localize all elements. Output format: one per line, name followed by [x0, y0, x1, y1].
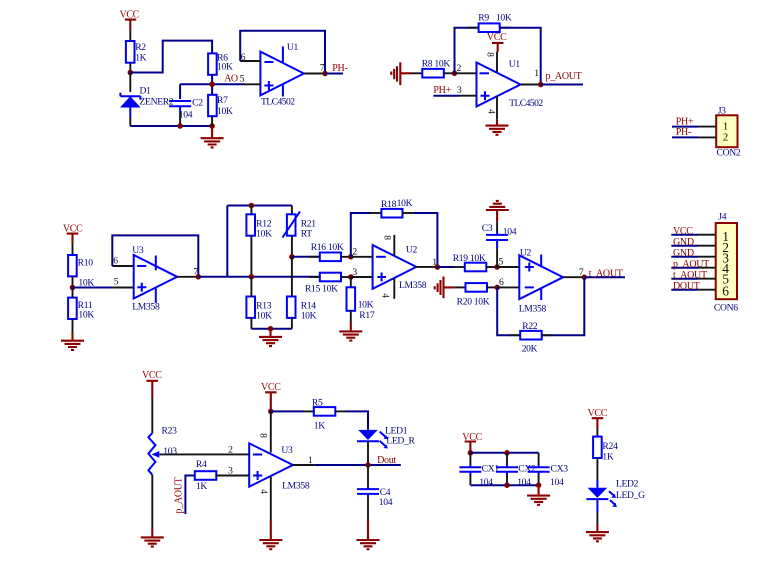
- wire R21/R14 node down: [291, 257, 293, 297]
- power VCC (pin 8 U1B): [487, 32, 507, 52]
- svg-text:10K: 10K: [496, 13, 512, 24]
- ground (C4): [357, 520, 380, 550]
- svg-text:PH-: PH-: [676, 127, 691, 138]
- pin 2 J4 + wire GND: [698, 245, 716, 247]
- op-amp U2 (A): [373, 245, 427, 292]
- pin 1 J4 + wire VCC: [698, 234, 716, 236]
- svg-text:AO: AO: [224, 74, 238, 85]
- diode LED1: [357, 426, 416, 449]
- power VCC (R2 top): [120, 10, 140, 42]
- svg-text:p_AOUT: p_AOUT: [546, 71, 582, 82]
- svg-text:GND: GND: [673, 248, 694, 259]
- node junction R12 top: [249, 203, 255, 209]
- wire AO net: [180, 75, 244, 95]
- svg-text:5: 5: [499, 256, 504, 267]
- svg-text:1: 1: [308, 455, 313, 466]
- ground (below R11): [61, 332, 84, 350]
- svg-text:LED2: LED2: [616, 479, 639, 490]
- svg-text:R17: R17: [359, 310, 375, 321]
- svg-text:R16 10K: R16 10K: [311, 242, 344, 253]
- node junction R7 bottom: [209, 123, 215, 129]
- svg-text:R23: R23: [162, 425, 178, 436]
- node junction VCC/CX1: [468, 450, 474, 456]
- wire PH+ to J3: [672, 126, 698, 128]
- node junction divider ground: [268, 326, 274, 332]
- resistor R13: [246, 277, 272, 329]
- pin 6 J4 + wire DOUT: [698, 289, 716, 291]
- svg-text:PH+: PH+: [433, 85, 451, 96]
- wire LED1 to Dout node: [367, 441, 369, 465]
- connector J4: [714, 212, 738, 314]
- pin 1 stub U1B: [521, 84, 541, 86]
- resistor R6: [208, 52, 233, 75]
- op-amp U3 (A): [132, 245, 177, 313]
- node junction U2B output: [582, 274, 588, 280]
- svg-text:1K: 1K: [602, 452, 613, 463]
- node junction CX3 bottom: [536, 482, 542, 488]
- svg-text:C3: C3: [482, 223, 493, 234]
- svg-text:VCC: VCC: [487, 32, 507, 43]
- svg-text:LM358: LM358: [399, 280, 427, 291]
- wire CX top rail: [470, 452, 538, 454]
- svg-text:1K: 1K: [135, 52, 146, 63]
- capacitor CX1: [459, 453, 499, 488]
- svg-text:8: 8: [258, 433, 269, 438]
- capacitor C4: [357, 465, 393, 520]
- wire U1B feedback right: [500, 28, 541, 85]
- pin 1 stub U2A: [416, 266, 437, 268]
- svg-text:104: 104: [379, 497, 393, 508]
- node junction pin5 U2B: [494, 264, 500, 270]
- node junction R10/R11: [70, 285, 76, 291]
- svg-text:C2: C2: [192, 98, 203, 109]
- svg-text:U2: U2: [520, 247, 532, 258]
- svg-text:8: 8: [485, 52, 496, 57]
- ground (U3B pin4): [259, 520, 282, 550]
- ground (divider): [259, 329, 282, 346]
- pin 8 U3B: [270, 411, 272, 452]
- op-amp U1 (A): [260, 42, 304, 108]
- resistor R20: [455, 283, 498, 308]
- diode D1 zener: [120, 73, 174, 127]
- svg-text:10K: 10K: [256, 229, 272, 240]
- svg-text:6: 6: [722, 283, 729, 298]
- ground (LED2): [586, 524, 609, 541]
- ground (R20, sideways): [435, 277, 455, 299]
- svg-text:10K: 10K: [256, 311, 272, 322]
- ground (below R7): [201, 126, 224, 147]
- pin 4 U3B: [270, 477, 272, 520]
- wire R5 to LED1: [346, 411, 369, 430]
- svg-text:VCC: VCC: [142, 370, 162, 381]
- ground (C3, inverted): [486, 201, 509, 222]
- svg-text:p_AOUT: p_AOUT: [673, 259, 709, 270]
- node junction CX2 top: [504, 450, 510, 456]
- svg-text:104: 104: [550, 477, 564, 488]
- wire U3B output / Dout net: [314, 464, 401, 466]
- pin 2 J3: [698, 136, 716, 138]
- ground (below U1B): [486, 120, 509, 135]
- ground (R17): [339, 322, 362, 341]
- connector J3: [716, 106, 741, 159]
- wire divider bottom rail: [251, 328, 292, 330]
- svg-text:LM358: LM358: [282, 481, 310, 492]
- op-amp U3 (B): [249, 443, 310, 491]
- wire U3A output to divider / R15: [198, 206, 319, 277]
- svg-text:R7: R7: [217, 95, 228, 106]
- svg-text:CON6: CON6: [714, 302, 738, 313]
- resistor R14: [287, 297, 317, 329]
- svg-text:R22: R22: [522, 321, 538, 332]
- svg-text:CX3: CX3: [551, 464, 569, 475]
- resistor R4: [195, 459, 249, 492]
- resistor R2: [126, 41, 147, 73]
- svg-text:GND: GND: [673, 237, 694, 248]
- svg-text:R5: R5: [312, 398, 323, 409]
- pin 3 stub U2A: [351, 276, 373, 278]
- svg-text:ZENER2: ZENER2: [140, 96, 174, 107]
- resistor R24: [593, 437, 618, 480]
- svg-text:6: 6: [113, 256, 118, 267]
- resistor R16: [309, 242, 351, 261]
- svg-text:5: 5: [114, 276, 119, 287]
- svg-text:2: 2: [228, 444, 233, 455]
- node junction C2 bottom: [177, 123, 183, 129]
- wire PH+ net: [433, 95, 460, 97]
- svg-text:104: 104: [503, 227, 517, 238]
- pin 2 stub U1B: [455, 72, 477, 74]
- svg-text:J4: J4: [718, 212, 726, 223]
- resistor R5: [304, 398, 346, 432]
- wire PH- to J3: [672, 136, 698, 138]
- pin 6 stub U2B: [497, 286, 519, 288]
- node junction R21 bottom: [289, 254, 295, 260]
- svg-text:R8 10K: R8 10K: [422, 58, 451, 69]
- pin 6 stub U3A: [112, 265, 133, 267]
- svg-text:U2: U2: [406, 245, 418, 256]
- potentiometer R23: [148, 425, 249, 528]
- svg-text:4: 4: [258, 489, 269, 494]
- wire p_AOUT to R4: [185, 476, 194, 515]
- svg-text:RT: RT: [301, 229, 313, 240]
- resistor R19: [437, 253, 497, 271]
- node junction pin3 U2A: [348, 274, 354, 280]
- pin 1 J3: [698, 126, 716, 128]
- svg-text:6: 6: [241, 52, 246, 63]
- wire VCC to R5: [271, 410, 304, 412]
- wire t_AOUT net: [584, 276, 625, 278]
- node junction pin2 U1B: [452, 71, 458, 77]
- wire R18 feedback loop: [351, 213, 438, 267]
- svg-text:t_AOUT: t_AOUT: [673, 270, 707, 281]
- wire p_AOUT net: [541, 84, 583, 86]
- pin 3 J4 + wire GND: [698, 256, 716, 258]
- capacitor CX3: [528, 453, 569, 488]
- svg-text:4: 4: [380, 293, 391, 298]
- svg-text:D1: D1: [140, 86, 152, 97]
- resistor R8: [411, 58, 455, 77]
- resistor R15: [305, 273, 351, 295]
- resistor R22: [510, 321, 553, 354]
- svg-text:103: 103: [163, 446, 177, 457]
- svg-text:TLC4502: TLC4502: [509, 98, 543, 109]
- svg-text:3: 3: [457, 85, 462, 96]
- pin 5 J4 + wire t_AOUT: [698, 278, 716, 280]
- node junction U2A output: [435, 264, 441, 270]
- pin 4 U1B: [496, 96, 498, 119]
- pin 4 U2A: [393, 278, 395, 299]
- svg-text:U3: U3: [132, 245, 144, 256]
- pin 6 stub U1A: [240, 60, 260, 62]
- wire R22 feedback loop: [497, 277, 584, 335]
- resistor R17: [347, 277, 375, 322]
- resistor R21 thermistor: [283, 206, 317, 257]
- svg-text:LM358: LM358: [132, 301, 160, 312]
- svg-text:CON2: CON2: [717, 148, 741, 159]
- resistor R18: [371, 198, 413, 218]
- svg-text:R10: R10: [78, 258, 94, 269]
- node junction U3A output: [196, 274, 202, 280]
- node junction pin6 U2B: [494, 285, 500, 291]
- svg-text:U1: U1: [509, 59, 521, 70]
- ground (R23): [141, 528, 164, 547]
- svg-text:R19 10K: R19 10K: [453, 253, 486, 264]
- node junction U1B output: [538, 82, 544, 88]
- node junction Dout: [365, 462, 371, 468]
- svg-text:2: 2: [723, 131, 728, 143]
- resistor R9: [468, 13, 512, 32]
- ground (CX caps): [527, 485, 550, 505]
- diode LED2: [586, 479, 645, 525]
- pin 4 J4 + wire p_AOUT: [698, 267, 716, 269]
- svg-text:3: 3: [228, 465, 233, 476]
- node junction R12 bottom: [249, 274, 255, 280]
- svg-text:R4: R4: [196, 459, 207, 470]
- pin 8 U1B: [496, 52, 498, 73]
- ground (left of R8, sideways): [391, 62, 411, 85]
- wire R21 node to R16: [292, 256, 320, 258]
- svg-text:R20 10K: R20 10K: [457, 297, 490, 308]
- svg-text:PH-: PH-: [332, 63, 347, 74]
- svg-text:1K: 1K: [196, 481, 207, 492]
- resistor R10: [68, 255, 94, 288]
- svg-text:1: 1: [534, 68, 539, 79]
- svg-text:p_AOUT: p_AOUT: [174, 477, 185, 513]
- svg-text:10K: 10K: [217, 106, 233, 117]
- svg-text:R9: R9: [478, 13, 489, 24]
- capacitor C2: [169, 84, 203, 126]
- pin 7 stub U1A: [304, 73, 325, 75]
- pin 8 U2A: [393, 235, 395, 256]
- pin 1 stub U3B: [293, 464, 314, 466]
- power VCC (R24 top): [588, 408, 608, 437]
- pin 5 stub U1A: [244, 83, 260, 85]
- node junction VCC/R5/pin8: [268, 409, 274, 415]
- svg-text:8: 8: [381, 235, 392, 240]
- node junction pin2 U2A: [348, 254, 354, 260]
- power VCC (R23 top): [142, 370, 162, 433]
- svg-text:5: 5: [240, 74, 245, 85]
- svg-text:LM358: LM358: [519, 303, 547, 314]
- wire PH- net: [325, 73, 343, 75]
- svg-text:VCC: VCC: [673, 226, 693, 237]
- svg-text:104: 104: [179, 110, 193, 121]
- svg-text:t_AOUT: t_AOUT: [589, 268, 623, 279]
- svg-text:U1: U1: [287, 42, 299, 53]
- svg-text:R18: R18: [381, 199, 397, 210]
- node junction CX2 bottom: [504, 482, 510, 488]
- pin 2 stub U2A: [351, 256, 373, 258]
- wire bottom rail section1: [130, 125, 212, 127]
- capacitor C3: [482, 221, 517, 267]
- svg-text:Dout: Dout: [377, 455, 396, 466]
- svg-text:10K: 10K: [358, 300, 374, 311]
- svg-text:R15 10K: R15 10K: [305, 284, 338, 295]
- svg-text:U3: U3: [281, 445, 293, 456]
- capacitor CX2: [496, 453, 536, 488]
- op-amp U1 (B): [477, 59, 544, 109]
- wire U1A feedback loop: [240, 31, 325, 74]
- wire U3A feedback loop: [112, 235, 198, 276]
- svg-text:TLC4502: TLC4502: [261, 97, 295, 108]
- resistor R11: [68, 288, 94, 333]
- op-amp U2 (B): [519, 247, 563, 314]
- svg-text:CX2: CX2: [518, 464, 536, 475]
- svg-text:CX1: CX1: [482, 464, 500, 475]
- wire U1B feedback left: [455, 28, 479, 74]
- node junction AO: [209, 82, 215, 88]
- svg-text:DOUT: DOUT: [673, 281, 700, 292]
- svg-text:10K: 10K: [397, 198, 413, 209]
- svg-text:LED_G: LED_G: [616, 490, 645, 501]
- pin 7 stub U2B: [563, 276, 584, 278]
- power VCC (R5/pin8): [261, 382, 281, 411]
- svg-text:10K: 10K: [217, 62, 233, 73]
- svg-text:R24: R24: [602, 441, 618, 452]
- node junction U1A output: [322, 71, 328, 77]
- svg-text:1K: 1K: [314, 420, 325, 431]
- resistor R12: [246, 206, 272, 277]
- wire CX bottom rail: [470, 484, 538, 486]
- power VCC (CX caps): [462, 432, 482, 453]
- svg-text:PH+: PH+: [676, 117, 694, 128]
- pin 7 stub U3A: [177, 276, 198, 278]
- resistor R7: [208, 95, 233, 126]
- svg-text:10K: 10K: [78, 309, 94, 320]
- power VCC (R10 top): [63, 224, 83, 256]
- svg-text:10K: 10K: [301, 311, 317, 322]
- svg-text:LED_R: LED_R: [386, 436, 415, 447]
- wire R2 node to R6 top: [130, 41, 212, 73]
- node junction below R2: [128, 70, 134, 76]
- svg-text:4: 4: [486, 109, 497, 114]
- wire R10/R11 node to pin5 U3A: [73, 287, 113, 289]
- svg-text:20K: 20K: [522, 343, 538, 354]
- pin 5 stub U2B: [497, 266, 519, 268]
